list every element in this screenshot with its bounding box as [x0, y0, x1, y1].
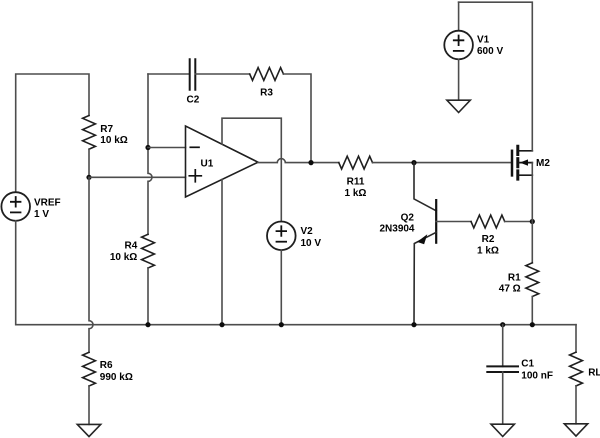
- svg-text:C1: C1: [521, 359, 534, 370]
- wire: R1 bottom to rail: [531, 297, 533, 325]
- ground (below RL): [564, 424, 587, 436]
- voltage source VREF: [1, 192, 60, 221]
- resistor R2: [471, 215, 505, 256]
- svg-text:U1: U1: [201, 159, 214, 170]
- wire: node A down to R6 with hop over ground rail: [89, 177, 93, 352]
- resistor R11: [339, 156, 373, 199]
- svg-text:47 Ω: 47 Ω: [499, 284, 521, 295]
- svg-text:R6: R6: [100, 360, 113, 371]
- svg-text:R3: R3: [260, 88, 273, 99]
- capacitor C1: [487, 325, 553, 382]
- wire: C1 bottom to ground: [502, 372, 504, 424]
- svg-text:100 nF: 100 nF: [521, 371, 553, 382]
- svg-text:M2: M2: [536, 158, 550, 169]
- svg-text:600 V: 600 V: [477, 46, 503, 57]
- resistor R7: [83, 116, 128, 150]
- junction: R4/rail: [145, 322, 150, 327]
- wire: V1 bottom to ground: [458, 59, 460, 100]
- wire: R6 bottom to ground: [88, 386, 90, 424]
- wire: rail corner down to RL: [575, 325, 577, 353]
- voltage source V1: [444, 2, 503, 59]
- MOSFET M2: [512, 146, 550, 179]
- svg-text:1 V: 1 V: [34, 209, 49, 220]
- wire: op-amp V+ pin to V2 top: [222, 118, 281, 221]
- wire: inverting input: [148, 147, 186, 149]
- svg-text:1 kΩ: 1 kΩ: [345, 188, 367, 199]
- wire: R11 to MOSFET gate: [373, 162, 511, 164]
- ground (below C1): [491, 424, 514, 436]
- capacitor C2: [187, 59, 200, 105]
- svg-text:Q2: Q2: [401, 213, 415, 224]
- junction: R1/rail: [530, 322, 535, 327]
- svg-text:R2: R2: [482, 234, 495, 245]
- wire: VREF top to R7 top: [16, 74, 89, 192]
- resistor R4: [110, 234, 155, 268]
- wire: source line down through R2 node to R1: [531, 163, 533, 263]
- wire: node A to op-amp non-inverting input: [89, 176, 186, 178]
- svg-text:V2: V2: [301, 226, 314, 237]
- node C junction (feedback/output): [308, 160, 313, 165]
- voltage source V2: [267, 222, 321, 251]
- svg-text:R1: R1: [508, 273, 521, 284]
- op-amp U1: [186, 126, 259, 197]
- wire: R4 bottom to rail: [147, 268, 149, 325]
- wire: C2/R4 vertical with hop over non-inverting wire: [148, 74, 152, 234]
- svg-text:1 kΩ: 1 kΩ: [477, 245, 499, 256]
- junction: C1/rail: [500, 322, 505, 327]
- resistor RL: [570, 352, 600, 386]
- svg-text:R4: R4: [125, 241, 138, 252]
- node D junction (Q2 collector tap): [411, 160, 416, 165]
- wire: Q2 base to R2: [436, 221, 471, 223]
- svg-text:10 kΩ: 10 kΩ: [110, 252, 137, 263]
- svg-text:10 kΩ: 10 kΩ: [100, 135, 127, 146]
- resistor R1: [499, 263, 539, 297]
- wire: R7 bottom to node A: [88, 149, 90, 177]
- svg-text:R11: R11: [347, 176, 365, 187]
- node B junction (inverting input): [145, 145, 150, 150]
- junction: V2/rail: [279, 322, 284, 327]
- junction: R2/source line: [530, 219, 535, 224]
- node A junction: [86, 175, 91, 180]
- resistor R3: [250, 68, 284, 99]
- svg-text:C2: C2: [187, 95, 200, 106]
- ground (below R6): [77, 424, 100, 436]
- junction: V- pin/rail: [219, 322, 224, 327]
- svg-text:10 V: 10 V: [301, 238, 322, 249]
- wire: R2 to source line: [505, 221, 533, 223]
- wire: op-amp V- pin to rail: [221, 180, 223, 325]
- junction: Q2 emitter/rail: [411, 322, 416, 327]
- wire: C2 to R3: [195, 73, 249, 75]
- svg-text:V1: V1: [477, 35, 490, 46]
- wire: VREF bottom + ground rail: [16, 221, 576, 325]
- svg-text:RL: RL: [588, 367, 600, 378]
- wire: V2 bottom to rail: [280, 250, 282, 325]
- wire: top rail V1 to drain: [459, 2, 533, 151]
- wire: RL bottom to ground: [575, 386, 577, 424]
- wire: feedback top from node B to C2: [148, 73, 190, 75]
- transistor Q2: [379, 163, 436, 325]
- svg-text:VREF: VREF: [34, 198, 61, 209]
- svg-text:990 kΩ: 990 kΩ: [100, 372, 133, 383]
- wire: R3 to feedback drop: [283, 74, 311, 163]
- svg-text:2N3904: 2N3904: [379, 224, 414, 235]
- svg-text:R7: R7: [100, 124, 113, 135]
- resistor R6: [83, 352, 133, 386]
- ground (below V1): [447, 100, 470, 112]
- wire: op-amp output with hop over V2 line: [258, 159, 339, 163]
